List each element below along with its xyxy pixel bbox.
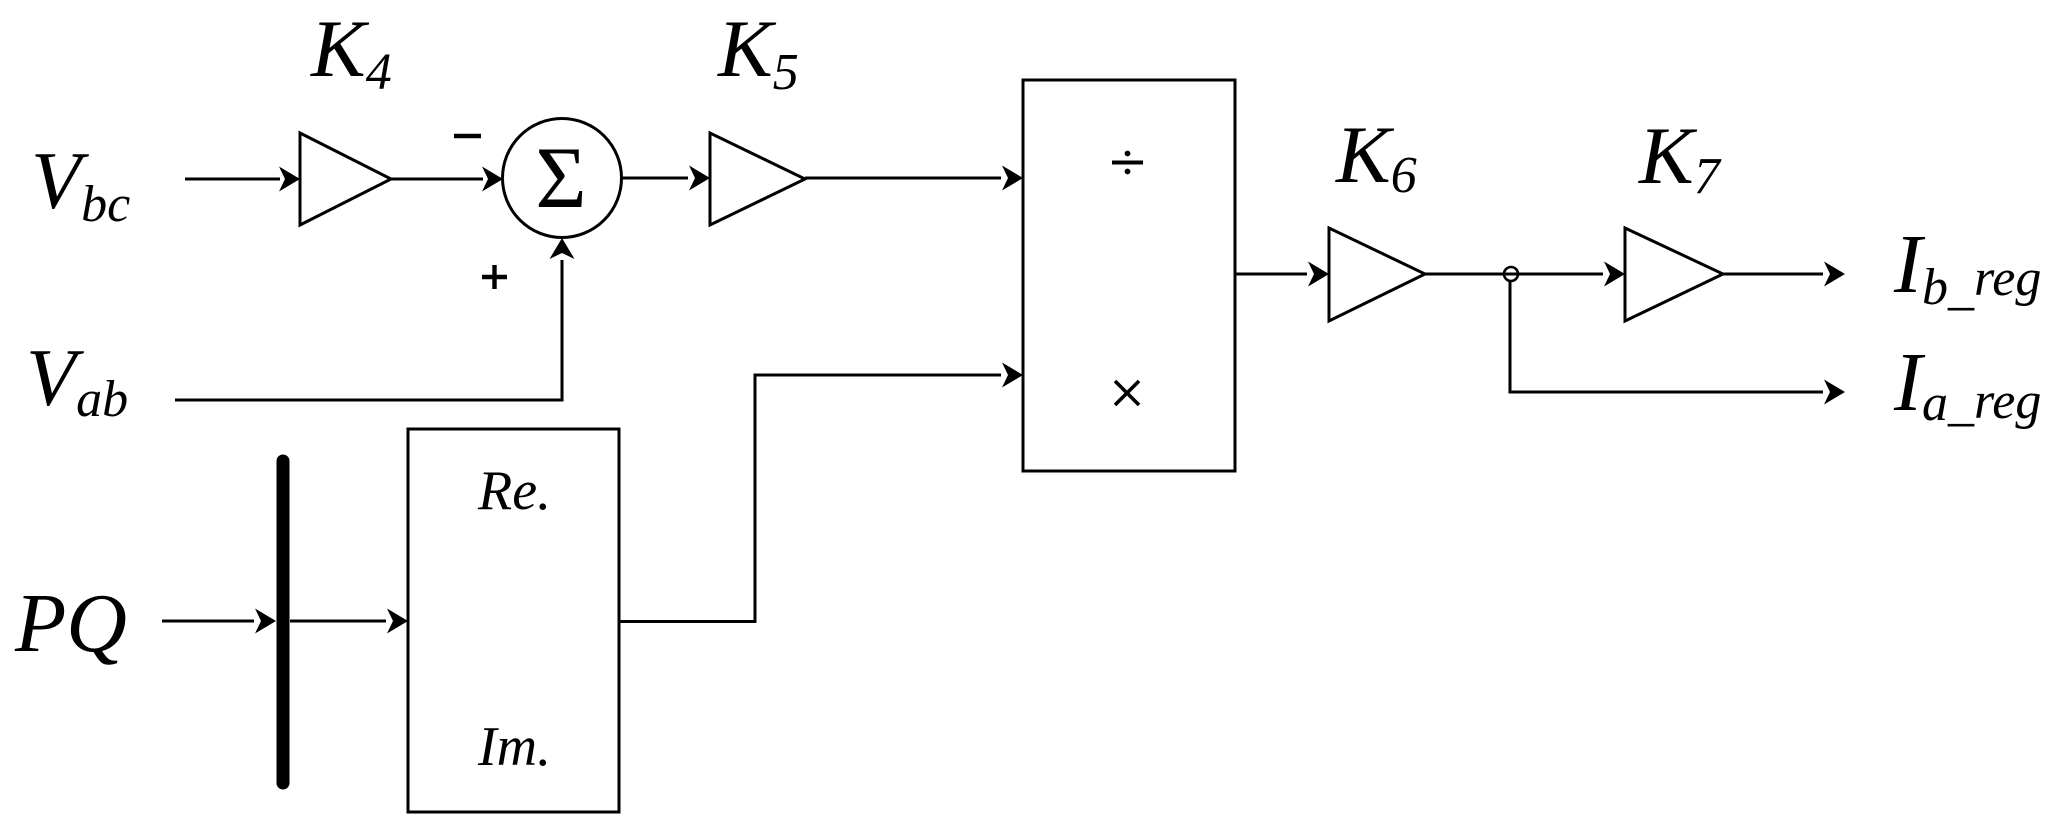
node branch point	[1504, 267, 1518, 281]
svg-text:Σ: Σ	[535, 130, 586, 227]
wire node to Ia_reg output	[1510, 281, 1845, 405]
wire K4 to sum	[391, 167, 503, 192]
svg-text:PQ: PQ	[14, 577, 127, 670]
wire K7 to Ib_reg output	[1723, 262, 1845, 287]
wire PQ to demux bar	[162, 609, 276, 634]
gain K6	[1329, 228, 1425, 321]
gain K4	[300, 133, 391, 225]
gain K5	[710, 133, 805, 225]
summing junction	[503, 119, 622, 238]
wire sum to K5	[622, 166, 711, 191]
sign minus	[454, 134, 481, 139]
svg-text:Im.: Im.	[477, 716, 551, 778]
wire K5 to divide block	[805, 166, 1023, 191]
wire divide block to K6	[1235, 262, 1329, 287]
divide symbol	[1112, 151, 1143, 175]
wire demux bar to Re/Im block	[290, 609, 408, 634]
wire Vbc to K4	[185, 167, 300, 192]
svg-text:Re.: Re.	[477, 460, 551, 522]
demux bar	[277, 461, 290, 783]
gain K7	[1625, 228, 1723, 321]
complex to Re/Im block	[408, 429, 619, 812]
wire K6 to K7	[1425, 262, 1625, 287]
multiply symbol	[1115, 381, 1139, 405]
wire Re/Im block to multiply input	[619, 363, 1023, 622]
wire Vab to sum (plus input)	[175, 238, 575, 400]
sign plus	[482, 265, 507, 289]
divide block	[1023, 80, 1235, 471]
